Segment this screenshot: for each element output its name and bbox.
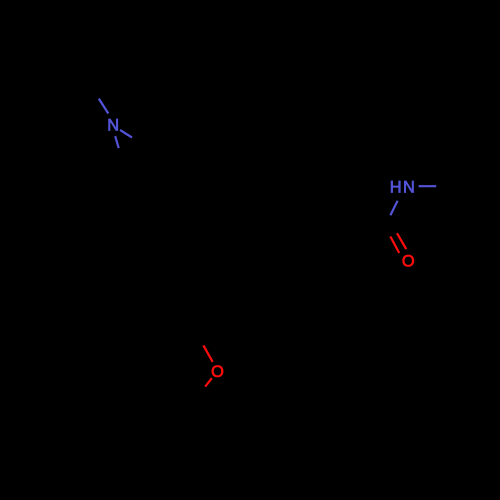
wire: bond N2 to CH3 (horizontal blue half) [419,185,437,187]
wire: bond O2 to CH3 (red half) [205,378,212,386]
svg-text:N: N [107,116,119,134]
svg-text:O: O [402,253,415,271]
svg-text:O: O [211,363,224,381]
wire: bond CH3 to N1 (blue half) [99,99,109,114]
wire: bond N1 to C ring (down blue half) [115,136,119,148]
svg-text:N: N [403,179,415,197]
wire: C=O double bond line 1 (red half) [390,237,399,254]
wire: bond ring C to O2 (red half) [203,345,212,362]
svg-text:H: H [390,179,402,197]
wire: bond N1 to C ring (down-right blue half) [120,130,132,138]
wire: bond N2 to carbonyl C (blue half) [390,201,397,215]
wire: C=O double bond line 2 (red half) [397,233,406,249]
